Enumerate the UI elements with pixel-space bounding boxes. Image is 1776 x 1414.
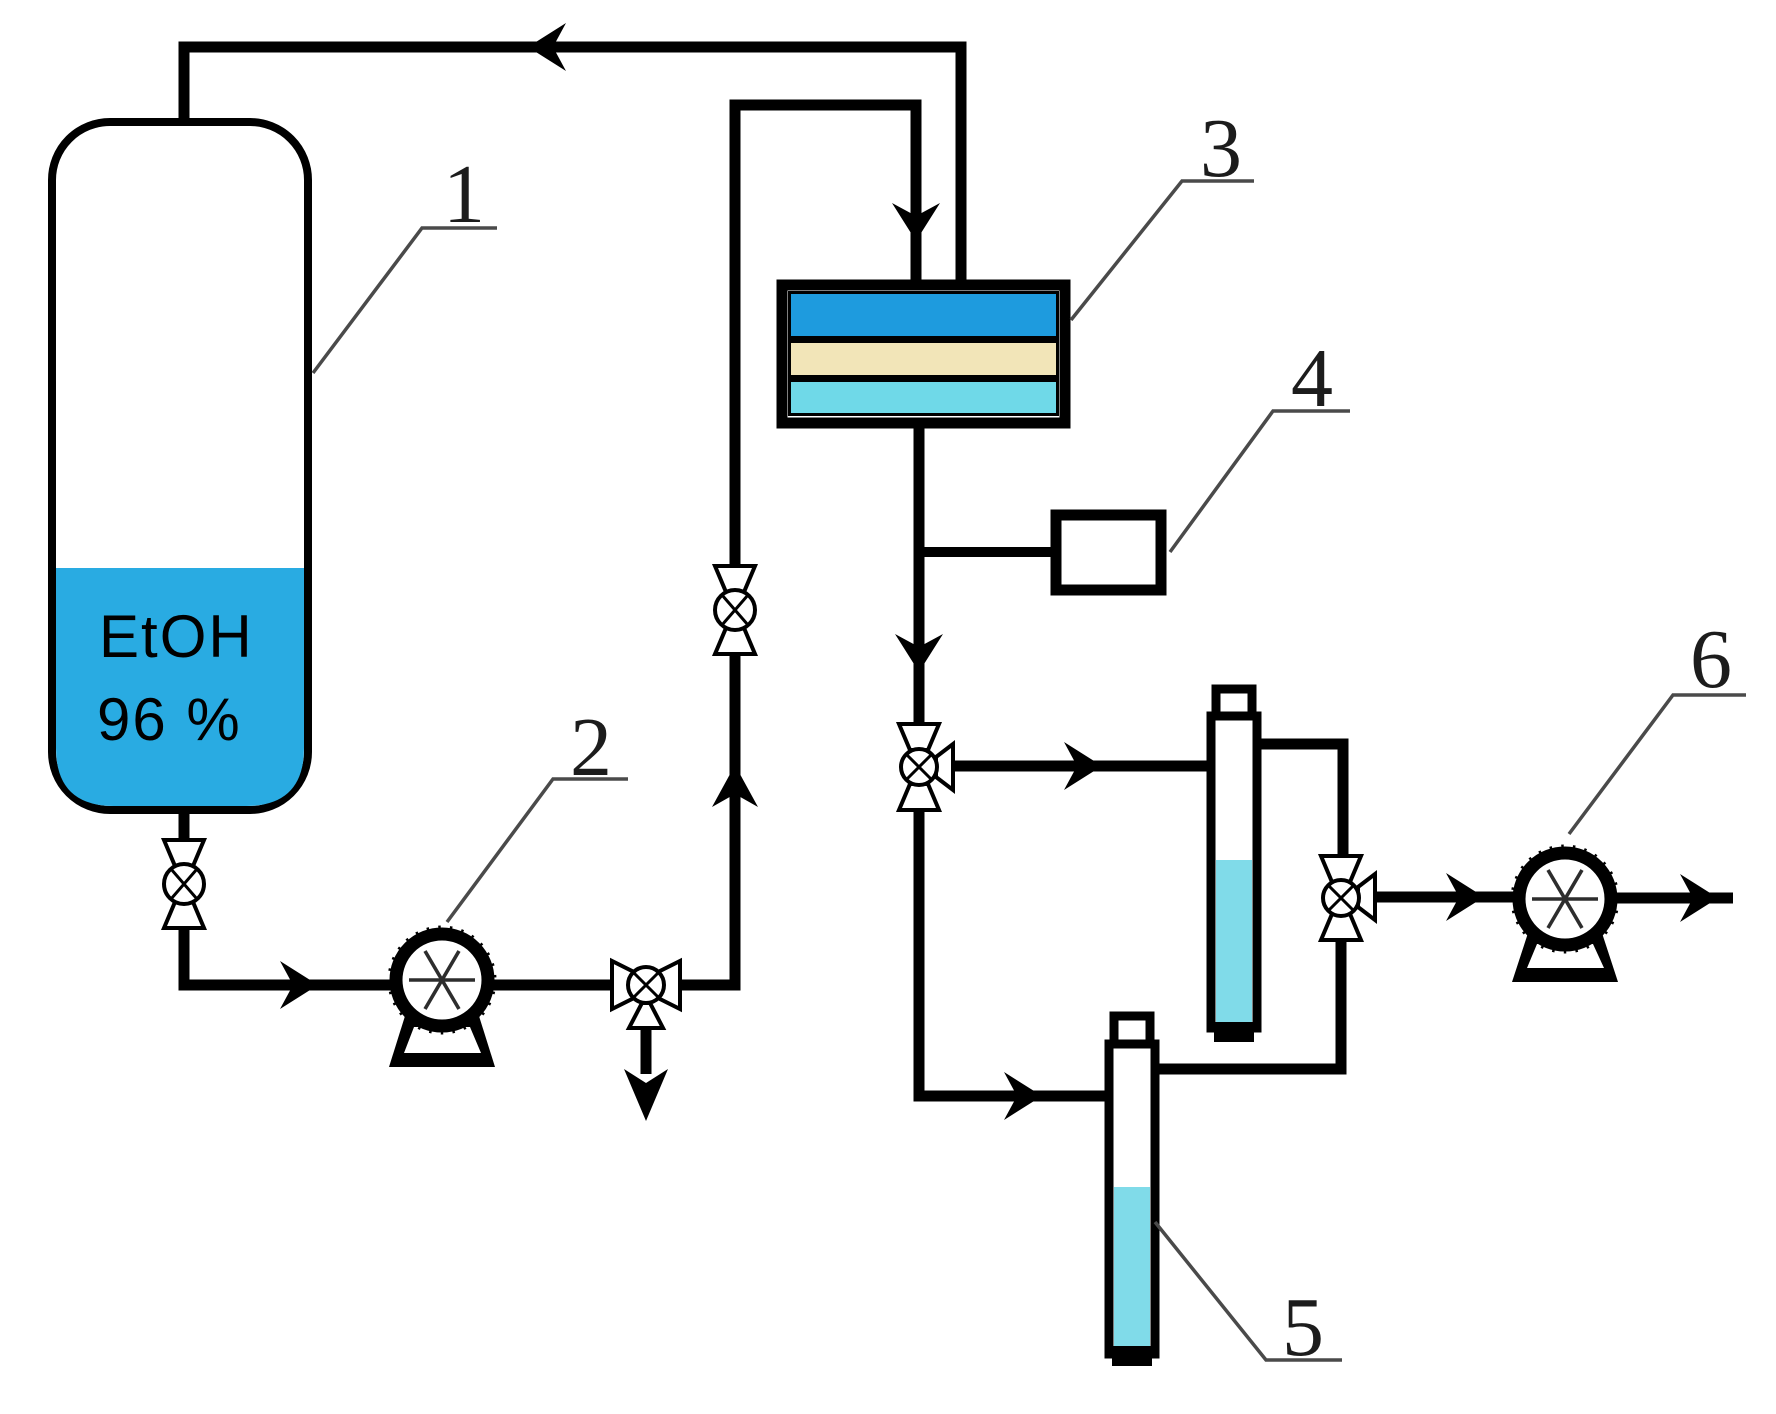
svg-text:3: 3	[1200, 102, 1242, 195]
label 4 leader	[1170, 411, 1350, 552]
valve on loop riser (globe valve)	[715, 566, 755, 654]
wire: condenser 2 outlet right and up to valve	[1156, 942, 1341, 1069]
svg-text:5: 5	[1282, 1281, 1324, 1374]
svg-text:4: 4	[1291, 332, 1333, 425]
label 3 leader	[1071, 181, 1254, 320]
wire: valve right port to condenser 1 top inlet	[950, 761, 1210, 772]
wire: valve to vacuum pump	[1372, 892, 1517, 903]
label 2 leader	[447, 779, 628, 922]
wire: top recycle line from membrane back to tank	[184, 47, 961, 285]
wire: drain line below three-way valve 2	[641, 1028, 652, 1074]
flow arrow right to vacuum pump	[1446, 873, 1484, 921]
flow arrow up on loop riser	[712, 765, 758, 807]
svg-text:1: 1	[443, 148, 485, 241]
svg-text:96 %: 96 %	[97, 686, 242, 753]
valve under tank (globe valve)	[164, 840, 204, 928]
sensor 4 box	[1056, 515, 1161, 590]
flow arrow down on drain	[624, 1069, 668, 1121]
svg-text:2: 2	[570, 701, 612, 794]
three-way valve after pump 2 (drain valve)	[612, 961, 680, 1028]
svg-text:EtOH: EtOH	[99, 603, 254, 670]
membrane cyan layer	[791, 382, 1056, 413]
membrane cream layer	[791, 343, 1056, 375]
condenser trap 2	[1109, 1016, 1155, 1362]
tank 1 (EtOH feed vessel)	[52, 122, 308, 810]
flow arrow right to condenser 1	[1064, 742, 1102, 790]
wire: tank outlet down through valve to pump	[184, 804, 400, 985]
flow arrow right to condenser 2	[1004, 1072, 1042, 1120]
label 6 leader	[1569, 695, 1746, 834]
flow arrow right on pump outlet	[1680, 874, 1718, 922]
wire: branch to sensor 4	[919, 547, 1060, 557]
vacuum pump 6	[1512, 846, 1618, 982]
wire: valve bottom down, right to condenser 2 inlet	[919, 808, 1108, 1096]
svg-text:6: 6	[1690, 613, 1732, 706]
membrane blue layer	[791, 294, 1056, 336]
membrane module 3	[782, 285, 1065, 423]
wire: pump to three-way valve	[489, 980, 620, 991]
tank 1 liquid	[56, 568, 304, 806]
three-way valve before vacuum pump	[1321, 856, 1375, 940]
three-way valve below membrane	[899, 724, 953, 810]
flow arrow left on top recycle line	[528, 23, 566, 71]
pump 2	[389, 927, 495, 1067]
wire: condenser 1 outlet right and down to valve	[1258, 744, 1343, 856]
wire: vacuum pump outlet	[1614, 893, 1733, 904]
flow arrow right on tank outlet line	[280, 961, 318, 1009]
label 5 leader	[1155, 1222, 1342, 1360]
wire: three-way valve right, up to loop top, into membrane feed	[672, 105, 916, 985]
wire: membrane bottom outlet down to three-way valve	[914, 424, 925, 726]
flow arrow down into membrane feed	[892, 203, 940, 241]
label 1 leader	[313, 228, 497, 373]
condenser trap 1	[1211, 689, 1257, 1038]
flow arrow down on membrane outlet	[895, 634, 943, 672]
